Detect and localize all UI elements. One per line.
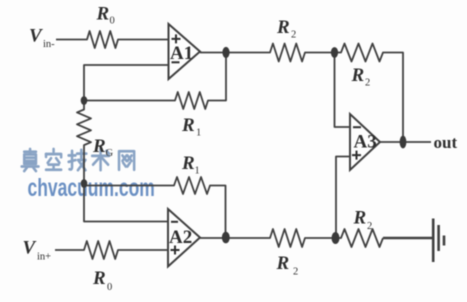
svg-text:in-: in- xyxy=(43,39,55,50)
svg-text:0: 0 xyxy=(107,282,112,293)
svg-text:2: 2 xyxy=(293,267,298,278)
svg-text:R: R xyxy=(351,65,365,86)
svg-text:R: R xyxy=(92,136,106,157)
svg-text:2: 2 xyxy=(365,78,370,89)
svg-text:0: 0 xyxy=(110,16,115,27)
svg-text:R: R xyxy=(276,253,290,274)
svg-text:1: 1 xyxy=(196,128,201,139)
svg-text:R: R xyxy=(353,208,367,229)
svg-text:R: R xyxy=(181,153,195,174)
svg-text:1: 1 xyxy=(195,166,200,177)
svg-text:A3: A3 xyxy=(354,132,377,153)
svg-text:chvacuum.com: chvacuum.com xyxy=(28,173,155,202)
svg-text:R: R xyxy=(276,17,290,38)
svg-text:V: V xyxy=(29,26,43,47)
svg-text:out: out xyxy=(434,133,458,152)
svg-text:2: 2 xyxy=(291,30,296,41)
svg-text:G: G xyxy=(106,148,114,159)
svg-text:2: 2 xyxy=(367,221,372,232)
svg-text:R: R xyxy=(92,268,106,289)
svg-text:A1: A1 xyxy=(170,43,193,64)
svg-text:V: V xyxy=(23,238,37,259)
svg-text:R: R xyxy=(181,115,195,136)
svg-text:A2: A2 xyxy=(169,227,192,248)
svg-text:R: R xyxy=(96,4,110,25)
svg-text:in+: in+ xyxy=(37,252,51,263)
